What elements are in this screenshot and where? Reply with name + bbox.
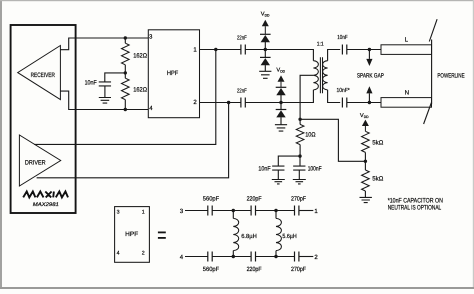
svg-text:560pF: 560pF (203, 196, 220, 203)
capacitor 22nF line1 (241, 45, 245, 55)
resistor 162ohm lower (122, 78, 130, 99)
junction driver top / line 1 (214, 48, 217, 51)
transformer core (320, 57, 322, 93)
svg-text:NEUTRAL IS OPTIONAL: NEUTRAL IS OPTIONAL (388, 205, 442, 212)
svg-text:220pF: 220pF (247, 196, 262, 203)
svg-text:HPF: HPF (167, 70, 178, 77)
capacitor 560pF top (208, 206, 212, 216)
resistor 5kohm upper (362, 131, 370, 152)
wire node3 to 560pF (185, 210, 208, 212)
wire 220pF to 270pF bottom (256, 256, 295, 258)
svg-text:RECEIVER: RECEIVER (31, 72, 56, 79)
wire cap to transformer primary bottom (245, 90, 313, 103)
ground 10nF tap filter (272, 180, 285, 184)
spark gap electrodes (368, 50, 370, 59)
line box L (381, 45, 432, 55)
transformer primary winding (313, 61, 318, 90)
svg-text:POWERLINE: POWERLINE (437, 72, 464, 79)
capacitor 220pF bottom (251, 252, 255, 262)
HPF equivalent box (115, 207, 150, 263)
svg-text:270pF: 270pF (291, 266, 306, 273)
ground receiver bias cap (99, 98, 111, 104)
powerline bus (431, 40, 433, 105)
svg-text:560pF: 560pF (203, 266, 220, 273)
op-amp RECEIVER (amplifier triangle) (18, 46, 61, 100)
capacitor 100nF tap filter (299, 156, 301, 166)
junction line4 / resistor divider (124, 108, 127, 111)
junction divider midpoint (364, 160, 367, 163)
capacitor 10nF tap filter (278, 156, 300, 166)
junction bottom inductor 2 (274, 255, 277, 258)
svg-text:5.6µH: 5.6µH (282, 233, 296, 240)
svg-text:220pF: 220pF (247, 266, 262, 273)
capacitor 10nF receiver bias (105, 73, 126, 82)
MAXIM logo (23, 192, 68, 198)
HPF block U-filter (148, 30, 199, 118)
resistor 10ohm (299, 119, 301, 124)
junction spark gap top (368, 48, 371, 51)
svg-text:DRIVER: DRIVER (25, 159, 46, 166)
wire cap to N box (347, 102, 381, 104)
svg-text:10nF: 10nF (258, 165, 270, 172)
svg-text:HPF: HPF (125, 231, 138, 238)
wire 560pF to 220pF bottom (212, 256, 251, 258)
svg-text:22nF: 22nF (237, 35, 247, 42)
VDD arrow bias divider (362, 120, 369, 126)
equals sign (158, 232, 166, 234)
svg-text:10Ω: 10Ω (305, 132, 316, 139)
svg-text:L: L (405, 36, 409, 43)
svg-text:5kΩ: 5kΩ (372, 139, 383, 146)
junction driver bottom / line 2 (227, 101, 230, 104)
ground line2 clamp (275, 125, 287, 131)
resistor 162ohm upper (124, 38, 126, 43)
svg-text:10nF*: 10nF* (337, 87, 351, 94)
svg-text:270pF: 270pF (291, 196, 306, 203)
resistor 5kohm lower (364, 161, 366, 170)
ground bias divider (360, 197, 372, 202)
wire receiver input bottom to HPF pin 4 (60, 91, 148, 109)
VDD arrow line2 clamp (278, 75, 285, 81)
wire HPF pin1 to coupling cap (200, 49, 241, 51)
svg-text:10nF: 10nF (85, 80, 97, 87)
transformer secondary winding (323, 61, 328, 90)
svg-text:1: 1 (142, 209, 145, 215)
svg-text:1:1: 1:1 (317, 42, 324, 48)
wire HPF pin2 to coupling cap (200, 102, 241, 104)
svg-text:162Ω: 162Ω (133, 53, 147, 60)
wire secondary bottom lead (328, 90, 341, 103)
svg-text:3: 3 (180, 208, 184, 215)
wire cap to L box (347, 49, 381, 51)
wire secondary top lead (328, 50, 341, 61)
diode clamp to VDD line1 (260, 33, 271, 35)
junction tap filter (298, 154, 301, 157)
svg-text:162Ω: 162Ω (133, 87, 147, 94)
wire 270pF to node2 (299, 256, 313, 258)
wire 220pF to 270pF top (256, 210, 295, 212)
wire transformer center tap (300, 75, 313, 119)
wire driver output top to line 1 (34, 50, 216, 145)
svg-text:4: 4 (117, 251, 120, 257)
wire 560pF to 220pF top (212, 210, 251, 212)
svg-text:5kΩ: 5kΩ (372, 175, 383, 182)
wire node4 to 560pF (185, 256, 208, 258)
svg-text:22nF: 22nF (237, 88, 247, 95)
svg-text:10nF: 10nF (337, 34, 348, 41)
svg-text:4: 4 (180, 254, 184, 261)
capacitor 220pF top (251, 206, 255, 216)
diode clamp to VDD line2 (276, 86, 287, 88)
svg-text:100nF: 100nF (308, 165, 322, 172)
svg-text:SPARK GAP: SPARK GAP (357, 72, 384, 79)
capacitor 10nF* neutral (342, 98, 346, 108)
line box N (381, 98, 432, 108)
junction center tap (298, 118, 301, 121)
powerline modem IC box MAX2981 (11, 25, 76, 213)
svg-text:MAX2981: MAX2981 (33, 202, 59, 208)
capacitor 270pF top (295, 206, 299, 216)
diode clamp to GND line1 (264, 50, 266, 58)
svg-text:6.8µH: 6.8µH (241, 233, 257, 240)
wire cap to transformer primary top (245, 50, 313, 61)
diode clamp to GND line2 (280, 103, 282, 110)
capacitor 10nF line L (342, 45, 346, 55)
wire driver output bottom to line 2 (37, 103, 229, 178)
inductor 5.6uH (275, 211, 277, 219)
capacitor 22nF line2 (241, 98, 245, 108)
svg-text:3: 3 (117, 209, 120, 215)
op-amp DRIVER (amplifier triangle) (19, 135, 60, 186)
capacitor 560pF bottom (208, 252, 212, 262)
wire tap to divider midpoint (300, 119, 365, 161)
wire receiver input top to HPF pin 3 (60, 38, 148, 50)
junction line2 clamp (279, 101, 282, 104)
svg-text:2: 2 (142, 251, 145, 257)
junction spark gap bottom (368, 101, 371, 104)
inductor 6.8uH (232, 211, 234, 219)
ground 100nF tap filter (293, 180, 306, 184)
junction line1 clamp (264, 48, 267, 51)
capacitor 270pF bottom (295, 252, 299, 262)
junction top inductor 1 (232, 209, 235, 212)
junction resistor midpoint (124, 71, 127, 74)
VDD arrow line1 clamp (262, 20, 269, 26)
ground line1 clamp (259, 71, 271, 78)
junction line3 / resistor divider (124, 36, 127, 39)
junction top inductor 2 (274, 209, 277, 212)
wire 270pF to node1 (299, 210, 313, 212)
junction bottom inductor 1 (232, 255, 235, 258)
svg-text:N: N (405, 89, 409, 96)
